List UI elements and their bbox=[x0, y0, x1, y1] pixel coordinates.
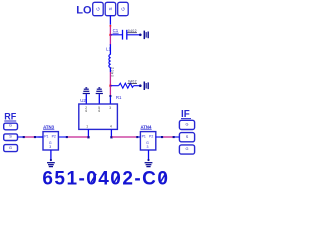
pad G (IF bottom) bbox=[179, 145, 194, 154]
inductor L1 coil bbox=[109, 54, 111, 67]
svg-text:0402: 0402 bbox=[128, 80, 137, 84]
svg-text:U2: U2 bbox=[80, 98, 86, 103]
pad G2 (LO right pad) bbox=[118, 2, 129, 15]
svg-text:ATN3: ATN3 bbox=[43, 124, 55, 129]
svg-text:6: 6 bbox=[85, 109, 87, 113]
junction at C1 branch bbox=[109, 34, 111, 36]
wire R1 to ground bbox=[134, 85, 141, 87]
wire C1 to ground bbox=[127, 34, 140, 36]
pad S (RF mid) bbox=[4, 134, 18, 141]
slash in zero 1 bbox=[91, 174, 96, 182]
ATN3 right pin bbox=[58, 136, 66, 138]
pin stub into L1 bbox=[109, 44, 111, 54]
pad G (RF bottom) bbox=[4, 145, 18, 152]
capacitor C1 plates bbox=[122, 30, 124, 40]
svg-text:3: 3 bbox=[147, 145, 149, 149]
resistor R1 zigzag bbox=[119, 83, 134, 88]
svg-text:G: G bbox=[186, 123, 189, 127]
slash in zero 3 bbox=[160, 174, 165, 182]
wire ATN4 to IF bbox=[162, 136, 173, 138]
svg-text:651-0402-C0: 651-0402-C0 bbox=[42, 169, 169, 187]
svg-text:G: G bbox=[121, 7, 126, 11]
ATN4 left pin bbox=[138, 136, 140, 138]
wire LO vertical upper bbox=[109, 27, 111, 35]
svg-text:3: 3 bbox=[49, 145, 51, 149]
pad G1 (LO left pad) bbox=[93, 2, 104, 15]
pad S (LO signal pad) bbox=[105, 2, 116, 15]
red wire-end square bbox=[110, 25, 112, 27]
RF S pad pin bbox=[18, 136, 24, 138]
svg-text:3: 3 bbox=[109, 106, 111, 110]
mixer U2 box bbox=[79, 104, 118, 129]
wire to C1 bbox=[110, 34, 122, 36]
svg-text:0402: 0402 bbox=[128, 29, 137, 33]
svg-text:RF: RF bbox=[4, 112, 16, 122]
ATN3 left pin bbox=[38, 136, 43, 138]
svg-text:P1: P1 bbox=[142, 135, 146, 139]
wire U2 to ATN4 bbox=[112, 136, 136, 138]
pad G (RF top) bbox=[4, 123, 18, 130]
svg-text:R1: R1 bbox=[116, 95, 122, 100]
svg-text:6: 6 bbox=[98, 109, 100, 113]
wire RF to ATN3 bbox=[24, 136, 35, 138]
svg-text:G: G bbox=[186, 147, 189, 151]
junction square at bottom-left pin bbox=[87, 136, 89, 138]
U2 bottom-right pin bbox=[110, 129, 112, 137]
slash in zero 2 bbox=[114, 174, 119, 182]
svg-text:P2: P2 bbox=[149, 135, 153, 139]
pin stub from LO S pad bbox=[109, 16, 111, 25]
svg-text:G: G bbox=[9, 146, 12, 150]
svg-text:ATN4: ATN4 bbox=[141, 124, 153, 129]
ground above U2 (right) bbox=[96, 88, 103, 104]
svg-text:1: 1 bbox=[86, 125, 88, 129]
wire to R1 bbox=[110, 85, 118, 87]
svg-text:4: 4 bbox=[110, 125, 112, 129]
svg-text:S: S bbox=[9, 134, 12, 138]
U2 bottom-left pin bbox=[87, 129, 89, 137]
svg-text:P2: P2 bbox=[52, 135, 56, 139]
pad S (IF mid) bbox=[179, 133, 194, 142]
svg-text:S: S bbox=[186, 135, 189, 139]
svg-text:S: S bbox=[108, 7, 113, 10]
wire U2 to ATN3 bbox=[67, 136, 88, 138]
attenuator ATN4 box bbox=[140, 132, 155, 150]
svg-text:LO: LO bbox=[76, 5, 92, 17]
svg-text:G: G bbox=[96, 7, 101, 11]
ground below ATN3 bbox=[47, 163, 55, 167]
ground below ATN4 bbox=[145, 163, 153, 167]
IF S pad pin bbox=[174, 136, 180, 138]
junction at R1 branch bbox=[109, 85, 111, 87]
attenuator ATN3 box bbox=[43, 132, 58, 150]
junction dot before ground (R1) bbox=[139, 84, 142, 87]
ATN4 ground stub bbox=[148, 150, 150, 160]
pin stub from L1 bbox=[109, 68, 111, 72]
wire LO vertical mid bbox=[109, 35, 111, 45]
junction square at bottom-right pin bbox=[110, 136, 112, 138]
ATN4 right pin bbox=[156, 136, 162, 138]
svg-text:G: G bbox=[9, 124, 12, 128]
ATN3 ground stub bbox=[50, 150, 52, 160]
wire LO vertical lower bbox=[109, 72, 111, 86]
svg-text:C1: C1 bbox=[113, 28, 119, 33]
pad G (IF top) bbox=[179, 120, 194, 129]
wire LO into U2 bbox=[109, 86, 111, 96]
ground above U2 (left) bbox=[83, 88, 90, 104]
junction dot before ground (C1) bbox=[139, 34, 142, 37]
ground (right-pointing, R1 branch) bbox=[144, 82, 148, 91]
ground (right-pointing, C1 branch) bbox=[144, 31, 148, 39]
svg-text:P1: P1 bbox=[44, 135, 48, 139]
